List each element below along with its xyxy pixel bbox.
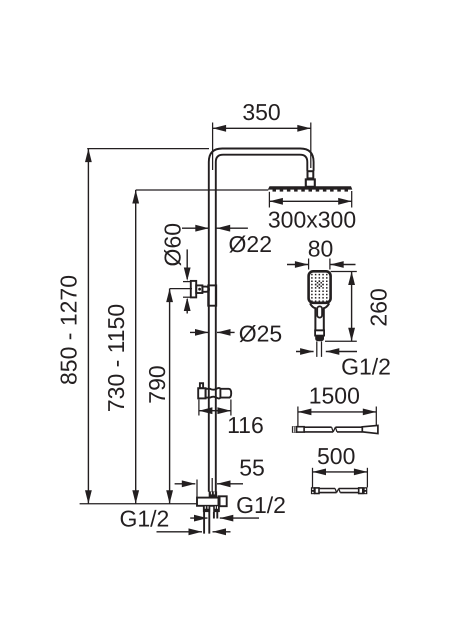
hose break mark (332, 427, 337, 432)
dim 116 left extension (198, 400, 200, 416)
dim 1500 right extension (375, 407, 377, 432)
hose left sleeve (297, 427, 305, 432)
svg-text:300x300: 300x300 (268, 207, 356, 233)
dim diam60 upper arrow (186, 249, 188, 279)
svg-text:500: 500 (317, 443, 355, 469)
dim 116 arrow right (217, 407, 231, 414)
dim 850-1270 arrow up (85, 149, 92, 163)
dim 80 right extension (329, 259, 331, 270)
dim G1/2 bottom (row B) right arrow (213, 531, 231, 533)
svg-text:850 - 1270: 850 - 1270 (56, 275, 82, 385)
svg-text:Ø22: Ø22 (229, 231, 272, 257)
dim 790 arrow down (166, 490, 173, 504)
dim 350 right extension (310, 123, 312, 169)
svg-text:G1/2: G1/2 (236, 492, 286, 518)
svg-text:80: 80 (308, 235, 334, 261)
dim 55 left arrow (175, 483, 196, 485)
dim 260 line (351, 272, 353, 342)
dim 80 right arrow (330, 264, 355, 266)
dim 260 arrow down (348, 328, 355, 342)
dim 350 left extension (212, 123, 214, 171)
svg-text:Ø60: Ø60 (160, 223, 186, 266)
dim 80 left arrow (287, 264, 308, 266)
column pipe end nut (209, 491, 217, 497)
dim 116 line (199, 410, 231, 412)
dim 730-1150 arrow down (132, 490, 139, 504)
wall bar right cap (359, 488, 363, 494)
dim 500 left extension (312, 468, 314, 488)
dim 300x300 line (269, 200, 351, 202)
svg-text:55: 55 (239, 455, 265, 481)
hand shower handle slot (317, 306, 322, 317)
dim 260 top extension (331, 271, 357, 273)
shower column pipe inner contour (216, 155, 307, 492)
svg-text:G1/2: G1/2 (341, 354, 391, 380)
dim diam60 lower extension (183, 296, 191, 298)
hose body (304, 427, 362, 432)
dim 300x300 arrow right (338, 198, 352, 205)
left outlet stub (204, 512, 209, 534)
valve right outlet dark band (219, 496, 221, 506)
slider holder body (206, 388, 232, 399)
dim 730-1150 extension line (136, 189, 269, 191)
dim G1/2 bottom (row B) left arrow (157, 531, 203, 533)
wall bracket flange (191, 281, 196, 298)
valve bottom right nut (213, 506, 220, 512)
shower column pipe outer contour (209, 149, 314, 492)
dim G1/2 right (row A) left arrow (190, 517, 207, 519)
wall bar left cap (311, 487, 315, 494)
dim 500 line (313, 471, 368, 473)
dim 790 arrow up (166, 289, 173, 303)
svg-text:260: 260 (365, 288, 391, 326)
head connector lower box (306, 179, 315, 186)
right outlet stub (214, 512, 217, 519)
hand shower end cap (315, 335, 324, 341)
slider holder left knob (198, 388, 205, 398)
wall baseline (80, 503, 197, 505)
wall bracket screw dot (198, 288, 201, 291)
dim 500 arrow right (354, 469, 368, 476)
overhead shower nozzles (273, 190, 349, 192)
dim 260 bottom extension (325, 340, 357, 342)
valve bottom left nut (203, 506, 210, 512)
svg-text:1500: 1500 (309, 382, 360, 408)
hand shower taper to handle (310, 303, 329, 330)
hand shower spray dots (311, 274, 327, 302)
svg-text:350: 350 (242, 99, 280, 125)
wall bar body (319, 489, 359, 493)
dim G1/2 hand shower left arrow (296, 351, 314, 353)
dim diam25 right arrow (217, 331, 235, 333)
valve right outlet G1/2 (219, 496, 227, 506)
hand shower head (309, 271, 331, 303)
dim 350 arrow left (213, 125, 227, 132)
dim 300x300 arrow left (269, 198, 283, 205)
dim 500 right extension (366, 468, 368, 488)
overhead shower plate (268, 186, 353, 189)
dim 850-1270 line (87, 149, 89, 504)
wall bar break mark (335, 489, 340, 493)
dim 1500 line (298, 411, 376, 413)
hose right fitting (362, 425, 378, 433)
svg-text:Ø25: Ø25 (239, 320, 282, 346)
dim 300x300 right extension (351, 191, 353, 208)
dim diam22 left arrow (182, 227, 209, 229)
svg-text:116: 116 (227, 412, 264, 438)
head connector upper box (308, 171, 314, 178)
dim 350 arrow right (297, 125, 311, 132)
dim 55 right arrow (217, 483, 243, 485)
dim 850-1270 extension line (87, 148, 209, 150)
dim 500 arrow left (313, 469, 327, 476)
dim 790 extension line (170, 288, 192, 290)
dim 55 extension tick (196, 480, 198, 498)
dim 116 arrow left (199, 407, 213, 414)
hand shower lower fitting (315, 330, 324, 335)
dim 850-1270 arrow down (85, 490, 92, 504)
dim 1500 arrow right (363, 409, 377, 416)
svg-text:G1/2: G1/2 (119, 506, 169, 532)
wall bracket neck (202, 287, 209, 292)
dim 730-1150 arrow up (132, 190, 139, 204)
hose left fitting nut (292, 426, 297, 433)
slider holder divider (219, 389, 221, 397)
dim 80 left extension (308, 259, 310, 270)
dim G1/2 hand shower right arrow (326, 351, 357, 353)
angle valve body (197, 498, 219, 506)
dim diam60 lower arrow (186, 299, 188, 314)
svg-text:790: 790 (144, 365, 170, 403)
hand shower hose stub (317, 341, 322, 357)
svg-text:730 - 1150: 730 - 1150 (103, 304, 129, 412)
dim 790 line (169, 289, 171, 504)
dim 350 line (213, 127, 311, 129)
wall bracket arm (196, 285, 202, 293)
slider holder knob nub (200, 383, 203, 388)
dim diam60 upper extension (183, 281, 191, 283)
dim 1500 left extension (297, 407, 299, 432)
dim 300x300 left extension (268, 192, 270, 208)
dim 730-1150 line (135, 190, 137, 504)
valve center extension (211, 478, 213, 492)
wall bracket pipe sleeve (208, 285, 216, 305)
dim 116 right extension (230, 400, 232, 416)
dim G1/2 right (row A) right arrow (220, 517, 259, 519)
dim 1500 arrow left (298, 409, 312, 416)
dim diam25 left arrow (190, 331, 209, 333)
dim 260 arrow up (348, 272, 355, 286)
dim diam22 right arrow (217, 227, 248, 229)
